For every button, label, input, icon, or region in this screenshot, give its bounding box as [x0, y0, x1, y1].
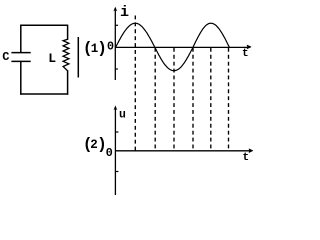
- dashed line at t=3T/2: [228, 48, 230, 151]
- svg-text:i: i: [120, 4, 129, 21]
- dashed line at t=T/4 (first peak): [134, 16, 136, 151]
- graph1 amplitude tick lower: [115, 68, 118, 70]
- dashed line at t=T/2: [154, 48, 156, 151]
- inductor core bar: [77, 37, 79, 78]
- dashed line at t=T: [192, 48, 194, 151]
- dashed line at t=5T/4 (second peak): [210, 48, 212, 151]
- graph1 y-axis: [114, 8, 116, 80]
- graph1 amplitude tick upper: [115, 24, 118, 26]
- graph2 amplitude tick upper: [115, 131, 118, 133]
- graph1 y-axis arrowhead: [113, 7, 117, 12]
- svg-text:t: t: [242, 48, 249, 60]
- svg-text:0: 0: [107, 40, 114, 54]
- svg-text:L: L: [48, 51, 56, 66]
- svg-text:t: t: [243, 152, 250, 164]
- wire top edge of LC loop: [20, 24, 68, 26]
- graph2 x-axis arrowhead: [249, 149, 253, 152]
- svg-text:0: 0: [106, 146, 113, 160]
- wire right lower (inductor to bottom): [67, 70, 69, 95]
- wire right upper (to inductor): [67, 25, 69, 40]
- capacitor C1 bottom plate: [11, 60, 30, 62]
- graph2 y-axis: [114, 107, 116, 195]
- current sine curve i(t): [116, 23, 230, 70]
- svg-text:u: u: [119, 109, 126, 122]
- dashed line at t=3T/4 (trough): [173, 48, 175, 151]
- svg-text:): ): [97, 40, 107, 58]
- graph2 amplitude tick lower: [115, 171, 118, 173]
- wire left upper (to capacitor): [20, 25, 22, 52]
- graph2 y-axis arrowhead: [114, 105, 118, 110]
- graph2 x-axis: [115, 150, 250, 152]
- wire bottom edge of LC loop: [20, 93, 68, 95]
- wire left lower (capacitor to bottom): [20, 61, 22, 94]
- graph1 x-axis: [115, 46, 248, 48]
- svg-text:C: C: [2, 50, 9, 64]
- graph1 x-axis arrowhead: [247, 45, 251, 48]
- capacitor C1 top plate: [11, 52, 30, 54]
- inductor L1 zigzag: [63, 39, 69, 71]
